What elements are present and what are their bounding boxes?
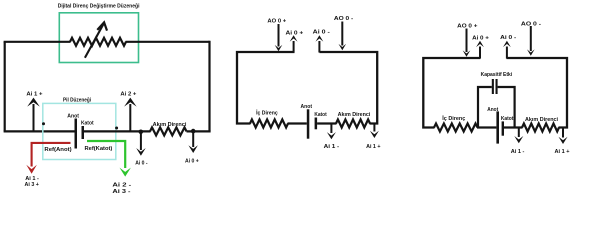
- junction node after Akim Direnci: [191, 129, 196, 134]
- svg-text:Ai 0 +: Ai 0 +: [185, 159, 199, 165]
- wire to anode (right): [477, 126, 496, 128]
- resistor Ic Direnc (right): [434, 124, 478, 132]
- svg-text:Akım Direnci: Akım Direnci: [338, 112, 371, 118]
- capacitor branch left stub: [478, 87, 492, 128]
- svg-text:Ai 0 -: Ai 0 -: [135, 161, 147, 167]
- wire to anode: [288, 122, 307, 124]
- battery cathode (middle): [315, 118, 318, 130]
- svg-text:Ai 1 +: Ai 1 +: [555, 149, 571, 155]
- svg-text:Ai 1 -: Ai 1 -: [511, 149, 525, 155]
- arrow Ai 1 - (middle): [330, 124, 332, 134]
- digital resistance box (green): [59, 13, 138, 63]
- battery anode plate (long): [75, 119, 78, 149]
- wire: top-right segment: [126, 41, 210, 43]
- green reference wire from cathode: [87, 141, 125, 168]
- svg-text:Ai 0 +: Ai 0 +: [286, 31, 304, 37]
- svg-text:Ai 1 -: Ai 1 -: [324, 144, 340, 150]
- svg-text:Anot: Anot: [67, 113, 79, 119]
- svg-text:AO 0 +: AO 0 +: [267, 19, 286, 25]
- svg-text:Anot: Anot: [301, 104, 313, 110]
- svg-text:Ai 0 +: Ai 0 +: [472, 36, 489, 42]
- arrow Ai 0 + (down from right junction): [192, 131, 194, 147]
- svg-text:AO 0 +: AO 0 +: [457, 23, 478, 29]
- battery cathode (right): [502, 121, 504, 135]
- svg-text:İç Direnç: İç Direnç: [256, 110, 278, 117]
- resistor Akim Direnci (right): [522, 124, 559, 132]
- battery box (cyan): [43, 103, 116, 159]
- svg-text:Ai 3 -: Ai 3 -: [112, 189, 130, 195]
- capacitor branch right stub: [498, 87, 515, 128]
- svg-text:Akım Direnci: Akım Direnci: [153, 122, 187, 128]
- wire: bottom wire left of anode: [4, 130, 75, 132]
- wire: bottom wire right of cathode: [84, 130, 151, 132]
- rheostat arrow: [85, 23, 104, 58]
- red reference wire from anode: [32, 143, 71, 167]
- svg-text:Pil Düzeneği: Pil Düzeneği: [63, 97, 91, 103]
- svg-text:AO 0 -: AO 0 -: [334, 16, 353, 22]
- capacitor left plate: [492, 79, 494, 94]
- svg-text:Katot: Katot: [501, 116, 514, 122]
- svg-text:Ai 2 -: Ai 2 -: [112, 182, 131, 188]
- wire: bottom-right segment: [187, 130, 211, 132]
- variable resistor (digital rheostat): [70, 38, 126, 46]
- svg-text:Ref(Anot): Ref(Anot): [44, 147, 71, 153]
- svg-text:Ai 1 +: Ai 1 +: [26, 92, 43, 98]
- junction node before Akim Direnci: [139, 130, 144, 135]
- battery anode (right): [496, 111, 499, 143]
- wire cathode to resistor (right): [504, 126, 523, 128]
- wire cathode to resistor: [317, 122, 336, 124]
- arrow Ai 1 - (right): [518, 128, 520, 138]
- arrow Ai 1 + (middle, at right corner): [373, 124, 375, 132]
- svg-text:Kapasitif Etki: Kapasitif Etki: [481, 72, 513, 78]
- wire: middle circuit right loop: [320, 52, 378, 124]
- svg-text:Ref(Katot): Ref(Katot): [85, 146, 113, 152]
- svg-text:Katot: Katot: [81, 121, 94, 127]
- resistor Ic Direnc (middle): [250, 120, 288, 128]
- arrow Ai 0 - (down from left junction): [140, 132, 142, 150]
- battery cathode plate (short): [82, 126, 85, 139]
- wire: right circuit left loop: [423, 58, 480, 128]
- svg-text:Katot: Katot: [314, 112, 326, 118]
- svg-text:Ai 1 +: Ai 1 +: [366, 144, 381, 150]
- capacitor right plate: [496, 79, 498, 94]
- svg-text:Ai 3 +: Ai 3 +: [25, 182, 40, 188]
- svg-text:Dijital Direnç Değiştirme Düze: Dijital Direnç Değiştirme Düzeneği: [58, 4, 140, 10]
- wire: middle circuit left loop: [237, 52, 295, 124]
- battery anode (middle): [307, 109, 310, 138]
- wire: right circuit right loop: [507, 58, 568, 128]
- resistor Akim Direnci (middle): [336, 120, 370, 128]
- node dot on cyan box left edge: [42, 122, 45, 125]
- svg-text:Ai 0 -: Ai 0 -: [500, 35, 516, 41]
- resistor Akim Direnci (left): [150, 127, 187, 135]
- svg-text:Ai 2 +: Ai 2 +: [120, 92, 137, 98]
- wire: left circuit outer loop top/left/right: [4, 42, 6, 132]
- svg-text:Ai 0 -: Ai 0 -: [313, 30, 330, 36]
- node dot on cyan box right edge: [115, 127, 118, 130]
- arrow Ai 1 + (right corner): [562, 128, 564, 138]
- wire: right wire of left circuit: [208, 41, 210, 132]
- svg-text:İç Direnç: İç Direnç: [442, 115, 466, 122]
